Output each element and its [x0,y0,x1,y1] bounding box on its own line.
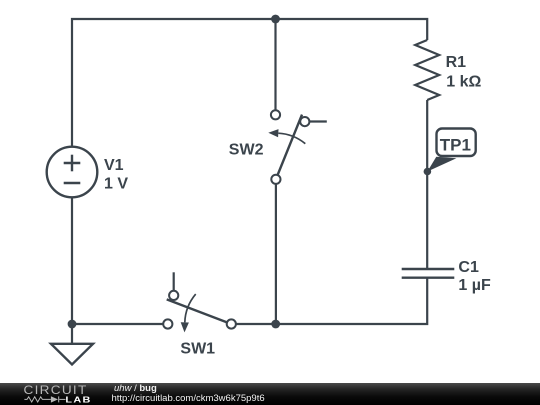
capacitor C1 [402,269,455,278]
TP1 balloon box [437,129,476,157]
TP1 pointer wedge [427,157,456,172]
label R1 value 1 kOhm [446,54,482,91]
svg-text:1 kΩ: 1 kΩ [446,74,481,91]
svg-text:R1: R1 [446,54,467,71]
svg-text:TP1: TP1 [440,136,471,155]
wire top loop: V1 top, top rail, down to R1 [72,19,427,148]
SW1 rotation arc [185,294,196,322]
svg-text:SW1: SW1 [180,340,215,357]
ground [51,320,93,365]
footer title uhw / bug [114,383,157,394]
wire bottom rail left: ground junction to SW1 left terminal [72,323,163,325]
switch SW1 [163,291,236,329]
svg-text:1 V: 1 V [104,176,128,193]
voltage source V1 [47,147,98,198]
test point TP1 [424,129,476,176]
switch SW2 [271,110,310,184]
svg-text:LAB: LAB [65,395,91,405]
junction SW2/bottom rail [271,320,280,329]
label C1 value 1 uF [458,259,491,294]
wire bottom rail right: SW1 right terminal to C1 corner [236,278,427,324]
wire SW2 branch lower [275,184,277,324]
SW1 arc arrowhead [181,322,189,332]
SW2 throw stub [309,120,326,122]
wire R1 to C1 (through TP1 node) [426,100,428,269]
SW1 lever [167,299,227,322]
svg-text:SW2: SW2 [229,141,264,158]
SW2 arc arrowhead [268,129,278,137]
SW2 lever [278,115,302,175]
node TP1 (probe dot) [424,168,432,176]
svg-text:V1: V1 [104,157,124,174]
svg-text:1 µF: 1 µF [458,277,491,294]
footer bar [0,383,540,405]
resistor R1 [415,40,439,100]
SW2 rotation arc [278,133,305,144]
wire left lower: V1 bottom down to ground [71,197,73,345]
junction top rail / SW2 branch [271,15,280,24]
SW1 top stub [173,272,175,290]
label V1 value [104,157,128,193]
svg-text:C1: C1 [458,259,479,276]
wire SW2 branch upper [274,19,276,110]
footer url text [112,393,265,404]
CircuitLab logo [0,383,100,405]
